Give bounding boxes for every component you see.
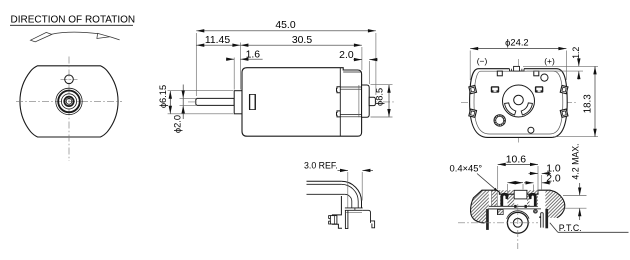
section centerlines [458, 222, 538, 224]
section view outline [471, 190, 565, 223]
section shelf lines [489, 205, 538, 207]
section view left fin hatched [471, 190, 489, 223]
svg-text:18.3: 18.3 [582, 94, 593, 114]
svg-text:10.6: 10.6 [506, 154, 526, 165]
side view can/endbell boundary [339, 68, 341, 137]
side view shaft [196, 98, 234, 105]
side view thrust washer on shaft [249, 94, 255, 109]
section PTC element [541, 213, 544, 228]
section center tab [514, 190, 527, 199]
svg-text:3.0 REF.: 3.0 REF. [304, 161, 338, 171]
rear view top crimp tabs [497, 71, 502, 76]
rear view small hole top right [541, 74, 548, 81]
section bearing hole [513, 218, 522, 227]
section view right fin hatched [545, 190, 564, 218]
rear view small hole bottom [528, 127, 534, 133]
section wall bar right [545, 209, 548, 228]
section terminal right [529, 193, 537, 206]
side view endbell rib lines near boss [340, 86, 361, 88]
side view rear endbell face line [358, 85, 360, 117]
svg-text:4.2 MAX.: 4.2 MAX. [570, 143, 580, 179]
rear view brush window right [535, 86, 543, 92]
side view crimp clip bottom [337, 111, 341, 117]
front view shaft/bearing concentric circles [56, 88, 82, 114]
rear view vent slot left [505, 103, 516, 115]
side view front bearing boss [234, 91, 242, 114]
svg-text:1.2: 1.2 [571, 47, 581, 59]
svg-text:ϕ6.15: ϕ6.15 [158, 85, 168, 108]
svg-text:ϕ2.0: ϕ2.0 [172, 115, 182, 133]
rear view knurled rivet bottom left [494, 115, 505, 126]
svg-text:45.0: 45.0 [275, 20, 295, 31]
svg-text:2.0: 2.0 [339, 50, 354, 61]
section view white cutouts [514, 199, 527, 208]
rotation direction curved double arrow [52, 32, 98, 34]
section wall bar left [486, 209, 489, 230]
detail right foot hook [371, 221, 375, 228]
front view top hole centerline tick [61, 78, 78, 80]
section bearing outer [507, 212, 528, 233]
detail terminal strip top surface [307, 180, 342, 182]
rear view inner endbell outline [474, 71, 563, 134]
section view left strip hatched [492, 190, 498, 207]
svg-text:P.T.C.: P.T.C. [559, 223, 582, 233]
front view top mounting hole [65, 75, 74, 84]
svg-text:DIRECTION OF ROTATION: DIRECTION OF ROTATION [11, 15, 136, 26]
rear view central boss [503, 85, 535, 117]
rear view outline [470, 69, 568, 138]
section terminal left [500, 193, 508, 206]
detail left step [332, 196, 342, 228]
side view endbell rib line top [343, 71, 361, 73]
detail terminal inner bend [341, 184, 358, 208]
section bearing boss arc [507, 211, 529, 219]
svg-text:ϕ8.5: ϕ8.5 [375, 88, 385, 106]
side view motor can body [242, 68, 362, 137]
rear view vent slot right [521, 103, 532, 115]
section tab width arrows [507, 182, 523, 184]
svg-text:(−): (−) [477, 56, 488, 66]
section left bracket step [489, 209, 498, 215]
svg-text:11.45: 11.45 [205, 35, 230, 46]
rear view centerlines [461, 102, 576, 104]
detail terminal strip inner surface [307, 183, 342, 185]
detail endbell bend [345, 194, 352, 208]
side view rear shaft tip bump [369, 97, 375, 105]
section PTC dot [539, 216, 540, 218]
front view horizontal centerline [16, 100, 122, 102]
front view: motor body outline [20, 66, 118, 137]
side view crimp clip top [337, 87, 341, 93]
rear view center shaft hole [514, 95, 524, 105]
detail right arm [363, 210, 371, 223]
rear view brush window left [491, 86, 499, 92]
rear view top notch with tab [510, 68, 525, 71]
section view middle strip hatched [497, 190, 538, 206]
detail terminal base band [345, 207, 363, 209]
section knurled pin right [534, 210, 538, 214]
svg-text:ϕ24.2: ϕ24.2 [505, 36, 529, 47]
detail left bracket [330, 216, 337, 224]
side view rear bearing boss phi8.5 [362, 85, 370, 117]
section hatch block below left terminal [497, 210, 503, 215]
detail endbell line [307, 193, 345, 195]
svg-text:(+): (+) [544, 56, 555, 66]
side view centerline [188, 101, 395, 103]
rear view side crimp tabs [469, 85, 477, 93]
detail terminal outer bend [341, 181, 361, 208]
front view vertical centerline [68, 57, 70, 162]
svg-text:0.4×45°: 0.4×45° [450, 163, 483, 174]
detail center prong [345, 210, 348, 228]
svg-text:30.5: 30.5 [292, 35, 312, 46]
